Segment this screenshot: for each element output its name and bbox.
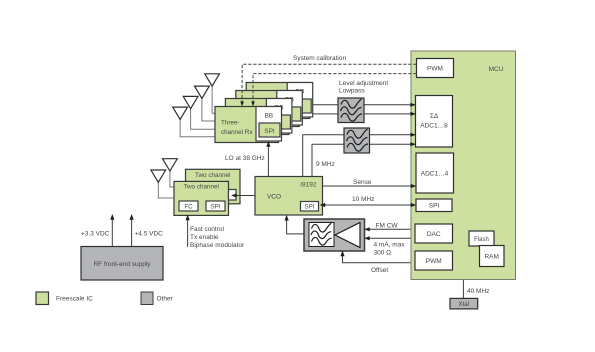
wire +4.5 VDC (131, 219, 133, 247)
wire antenna A3 stem (191, 108, 216, 130)
svg-text:LO at 38 GHz: LO at 38 GHz (225, 155, 265, 162)
svg-text:Offset: Offset (371, 267, 388, 274)
antenna A3 (183, 96, 198, 108)
block Two channel (back) (186, 169, 241, 204)
svg-text:Freescale IC: Freescale IC (56, 296, 93, 303)
filter lowpass 1 (338, 98, 364, 123)
svg-text:SPI: SPI (429, 203, 440, 210)
sub-block DAC (415, 224, 453, 243)
svg-text:Fast control: Fast control (190, 226, 225, 233)
wire Sense (323, 185, 413, 187)
sub-block Sigma-Delta ADC1-8 (416, 96, 453, 148)
svg-text:9 MHz: 9 MHz (316, 161, 335, 168)
svg-text:FC: FC (184, 204, 193, 211)
sub-block SPI (MCU) (416, 199, 452, 212)
legend Freescale IC swatch (36, 292, 49, 305)
svg-text:+3.3 VDC: +3.3 VDC (81, 230, 110, 237)
wire antenna A5 stem (170, 170, 186, 187)
svg-text:MCU: MCU (489, 66, 504, 73)
block VCO (255, 177, 323, 216)
arrow calibration onto Rx top 1 (240, 102, 244, 107)
svg-text:ADC1…4: ADC1…4 (421, 171, 449, 178)
antenna A2 (195, 86, 210, 98)
antenna A6 (151, 170, 166, 182)
block Rx copy 3 (236, 91, 302, 127)
svg-text:4 mA, max: 4 mA, max (374, 242, 406, 249)
block MCU (411, 51, 516, 280)
wire LO at 38 GHz (267, 144, 269, 177)
arrow into VCO bottom (285, 215, 289, 221)
svg-text:Flash: Flash (474, 237, 489, 243)
sub-block FC (179, 201, 198, 211)
wire antenna A1 stem (212, 85, 215, 113)
filter symbol inside amp box (309, 223, 334, 247)
svg-text:Two channel: Two channel (195, 172, 230, 179)
svg-text:RF front-end supply: RF front-end supply (93, 261, 151, 268)
svg-text:Biphase modulator: Biphase modulator (190, 242, 245, 249)
wire antenna A4 stem (180, 118, 215, 137)
svg-text:ΣΔ: ΣΔ (430, 113, 439, 120)
block Rx copy 2 (225, 99, 292, 135)
svg-text:channel Rx: channel Rx (221, 129, 253, 136)
svg-text:System calibration: System calibration (293, 55, 346, 62)
arrow into Sigma-Delta ADC 3 (410, 133, 416, 137)
block Three-channel Rx (front) (215, 107, 282, 143)
sub-block ADC1-4 (416, 153, 454, 193)
svg-text:FM CW: FM CW (376, 223, 399, 230)
amplifier triangle (335, 223, 360, 248)
svg-text:Level adjustment: Level adjustment (339, 80, 388, 87)
svg-text:Three-: Three- (221, 120, 240, 127)
antenna A1 (205, 74, 220, 86)
wire FM CW (DAC to amp) (368, 228, 415, 230)
sub-block RAM (480, 246, 505, 267)
sub-block PWM (top) (417, 59, 454, 78)
svg-text:ADC1…8: ADC1…8 (420, 123, 448, 130)
svg-text:Two channel: Two channel (184, 184, 219, 191)
svg-text:Lowpass: Lowpass (339, 88, 365, 95)
sub-block SPI (Tx) (206, 201, 225, 211)
block Rx copy 4 (backmost) (246, 83, 313, 119)
svg-text:300 Ω: 300 Ω (374, 250, 392, 257)
sub-block PWM (bottom) (415, 251, 453, 270)
sub-block SPI (VCO) (301, 202, 319, 212)
wire +3.3 VDC (111, 219, 113, 247)
svg-text:SPI: SPI (305, 204, 315, 211)
wire loop filter to VCO (287, 219, 304, 234)
block loop filter and amplifier (304, 219, 365, 251)
svg-text:SPI: SPI (264, 128, 275, 135)
wire BB outputs to lowpass filter 1 (313, 104, 338, 106)
svg-text:VCO: VCO (267, 194, 281, 201)
arrow lower into amp (364, 236, 370, 240)
wire Fast control stub (187, 219, 189, 247)
legend Other swatch (141, 292, 153, 305)
arrow FM CW into amp (364, 227, 370, 231)
wire MCU to Xtal (462, 280, 464, 299)
wire filter2 to Sigma-Delta ADC (370, 134, 412, 136)
wire filter1 to Sigma-Delta ADC (364, 104, 411, 106)
svg-text:/8192: /8192 (300, 182, 317, 189)
wire antenna A6 stem (158, 182, 174, 199)
port box (VCO input) (229, 190, 237, 201)
arrow 10 MHz into MCU SPI (411, 203, 417, 207)
arrow LO into Rx BB (266, 141, 270, 147)
wire VCO /8192 to filter2 (inner) (312, 144, 344, 176)
svg-text:DAC: DAC (427, 231, 441, 238)
block Xtal (450, 298, 478, 309)
wire system calibration upper dashed (242, 64, 416, 102)
svg-text:+4.5 VDC: +4.5 VDC (135, 230, 164, 237)
svg-text:PWM: PWM (426, 258, 442, 265)
wire VCO to Tx port (234, 195, 256, 197)
wire antenna A2 stem (202, 97, 216, 121)
arrow +3.3 VDC (110, 214, 114, 220)
svg-text:PWM: PWM (427, 66, 443, 73)
svg-text:SPI: SPI (211, 204, 221, 211)
block Two channel (front) (174, 181, 236, 215)
svg-text:BB: BB (264, 113, 273, 120)
svg-text:Xtal: Xtal (458, 301, 469, 308)
sub-block Flash (469, 231, 494, 246)
svg-text:Tx enable: Tx enable (190, 234, 219, 241)
filter lowpass 2 (344, 128, 370, 153)
wire system calibration lower dashed (253, 74, 417, 102)
arrow into Sigma-Delta ADC 2 (410, 112, 416, 116)
block RF front-end supply (81, 247, 163, 281)
svg-text:RAM: RAM (484, 254, 498, 261)
arrow into Sigma-Delta ADC 1 (410, 103, 416, 107)
arrow Fast control into FC (186, 215, 190, 221)
svg-text:10 MHz: 10 MHz (352, 196, 374, 203)
svg-text:Other: Other (157, 296, 174, 303)
svg-text:40 MHz: 40 MHz (467, 288, 489, 295)
wire VCO /8192 to filter2 (outer) (303, 135, 344, 177)
arrow into Tx port (231, 193, 237, 197)
antenna A5 (163, 159, 178, 171)
arrow Offset into amp box (340, 251, 344, 257)
arrow 10 MHz into VCO SPI (320, 203, 326, 207)
arrow into Sigma-Delta ADC 4 (410, 142, 416, 146)
arrow calibration onto Rx top 2 (251, 102, 255, 107)
arrow +4.5 VDC (130, 214, 134, 220)
antenna A4 (173, 107, 188, 119)
arrowheads (110, 103, 416, 257)
arrow Sense into ADC1-4 (411, 184, 417, 188)
wire DAC to amp lower (368, 237, 415, 239)
svg-text:Sense: Sense (353, 179, 372, 186)
wire Offset (PWM to amp) (343, 255, 416, 263)
wire 10 MHz (324, 204, 412, 206)
